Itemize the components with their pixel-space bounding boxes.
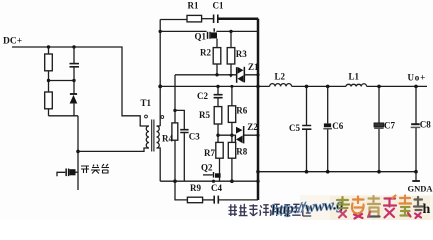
capacitor C1 [214, 15, 218, 24]
label C5 [289, 123, 300, 133]
node junction dot right vertical at Z2 line [256, 134, 259, 137]
svg-text:h: h [423, 202, 431, 217]
wire secondary top lead [157, 125, 161, 127]
node junction dot R6 at output rail [230, 85, 233, 88]
capacitor C8 [411, 86, 421, 171]
wire R3 top lead [230, 31, 232, 47]
diode Z1 (dual clamp) [236, 67, 245, 83]
resistor R5 [214, 107, 222, 124]
label watermark trailing h [423, 202, 431, 217]
label C6 [332, 121, 343, 131]
svg-text:C6: C6 [332, 121, 343, 131]
label Z2 [247, 122, 258, 132]
transformer phase dot secondary [161, 116, 164, 119]
node junction dot R5 at Z2 line [216, 134, 219, 137]
wire ground rail y=171.7 [258, 171, 416, 173]
node junction dot Q2 at bottom rail [212, 180, 215, 183]
node junction dot R4/C3 tee [173, 109, 176, 112]
node junction dot R3 top at Q1 rail [229, 30, 232, 33]
svg-text:L2: L2 [275, 72, 286, 82]
label watermark pale halo [300, 195, 433, 220]
wire output rail top y=86.4 [160, 85, 427, 87]
wire left divider branch [48, 47, 50, 116]
label C8 [420, 120, 431, 130]
label watermark http://www. [271, 197, 345, 219]
label L2 [275, 72, 286, 82]
wire R2 bottom to gate line [216, 64, 218, 75]
node junction dot R2 at gate line [215, 73, 218, 76]
wire R8 bottom to bottom rail [231, 158, 233, 181]
resistor R6 [228, 106, 235, 123]
wire top snubber rail y=19 [160, 19, 187, 21]
label C1 [213, 1, 224, 11]
svg-text:Z1: Z1 [248, 62, 259, 72]
capacitor C5 [302, 86, 311, 171]
label R2 [200, 48, 211, 58]
svg-text:Z2: Z2 [247, 122, 258, 132]
wire R4 riser from gate line down to R4 [174, 75, 176, 123]
wire Z2 line y=135.2 [218, 134, 258, 136]
wire R6 top lead [231, 86, 233, 105]
svg-text:L1: L1 [349, 72, 360, 82]
node junction dot R6 at Z2 line [230, 134, 233, 137]
wire secondary bottom lead to bottom rail [157, 148, 161, 181]
wire R5 bottom through Z2 line to R7 [217, 124, 219, 142]
resistor R-b (lower left, unlabeled) [45, 92, 53, 109]
label R1 [188, 1, 199, 11]
node junction dot R8 at bottom rail [230, 179, 234, 183]
capacitor C3 [180, 130, 188, 133]
node junction dot on DC+ rail at snubber branch [72, 45, 75, 48]
svg-text:R1: R1 [188, 1, 199, 11]
node junction dots on output rail [305, 85, 418, 89]
wire R4 bottom to rail [174, 140, 176, 181]
svg-text:T1: T1 [141, 98, 152, 108]
wire C3 jog [175, 110, 184, 129]
label Q2 [201, 163, 213, 173]
wire secondary-top vertical riser x=160 [159, 20, 161, 127]
wire secondary bottom rail y=181.2 [160, 180, 258, 182]
wire DC+ rail to transformer primary top [12, 47, 149, 126]
node junction dot right vertical at ground rail [256, 170, 260, 174]
svg-text:Q2: Q2 [201, 163, 213, 173]
svg-text:R7: R7 [204, 148, 215, 158]
node DC+ label [3, 37, 22, 47]
svg-text:Q1: Q1 [195, 32, 207, 42]
label watermark colorful logo glyphs [337, 196, 423, 219]
transformer T1 label [141, 98, 152, 108]
wire middle link between left branches [49, 80, 75, 82]
resistor R-a (upper left, unlabeled) [45, 54, 53, 71]
transformer T1 primary winding [146, 126, 149, 148]
svg-text:DC+: DC+ [3, 37, 22, 47]
svg-text:Uo+: Uo+ [408, 73, 427, 83]
diode Z2 (dual clamp) [235, 126, 245, 144]
svg-text:R5: R5 [199, 110, 210, 120]
svg-text:R4: R4 [162, 134, 173, 144]
label L1 [349, 72, 360, 82]
wire R3 bottom to gate line [230, 64, 232, 74]
wire Z1 gate line y=74.8 [175, 74, 258, 76]
svg-text:R2: R2 [200, 48, 211, 58]
node junction dot on DC+ rail at R divider [47, 45, 50, 48]
capacitor C2 [214, 86, 223, 106]
wire drain node to transformer primary bottom [78, 148, 149, 151]
node junction dot C2 at output rail [216, 85, 219, 88]
label R3 [236, 49, 247, 59]
node junction dot riser at output rail [158, 85, 162, 89]
resistor R7 [216, 142, 223, 158]
wire R1 to C1 [202, 18, 213, 20]
svg-text:C4: C4 [211, 183, 222, 193]
wire C4 to right vertical [219, 199, 258, 201]
wire C3 bottom to rail [183, 133, 185, 181]
diode (unlabeled, left clamp) [70, 94, 78, 104]
label C3 [189, 132, 200, 142]
node junction dot riser at Q1 rail [159, 30, 162, 33]
label R6 [236, 106, 247, 116]
label C4 [211, 183, 222, 193]
label GNDA [408, 184, 433, 194]
label R5 [199, 110, 210, 120]
resistor R8 [228, 142, 235, 158]
node junction dot left branch middle [47, 79, 50, 82]
label R8 [236, 147, 247, 157]
capacitor (unlabeled, top-left snubber) [70, 64, 80, 67]
svg-text:C1: C1 [213, 1, 224, 11]
label Z1 [248, 62, 259, 72]
svg-text:C8: C8 [420, 120, 431, 130]
node junction dot right vertical at output rail [256, 85, 260, 89]
node junction dot at switch drain [76, 150, 80, 154]
wire R9 to C4 [203, 199, 214, 201]
label C7 [384, 121, 395, 131]
resistor R9 [187, 197, 202, 203]
transformer phase dot primary [145, 115, 148, 118]
transistor Q2 symbol [203, 172, 221, 178]
label Q1 [195, 32, 207, 42]
node junction dot right vertical at Z1 line [256, 73, 259, 76]
label 开关管 (switch tube) pseudo-glyphs [81, 164, 109, 174]
wire R6 bottom through Z2 line to R8 [231, 122, 233, 142]
resistor R4 [172, 123, 178, 140]
transformer T1 secondary winding [157, 126, 160, 148]
label Uo+ output [408, 73, 427, 83]
wire bottom join of clamp network down to switch drain [49, 116, 79, 190]
capacitor C6 (electrolytic) [323, 86, 332, 171]
node junction dot right branch middle [72, 79, 75, 82]
resistor R3 [227, 48, 235, 64]
node arrowhead R3 to gate line [228, 74, 233, 78]
svg-text:C5: C5 [289, 123, 300, 133]
svg-text:R8: R8 [236, 147, 247, 157]
resistor R2 [213, 48, 221, 64]
inductor L1 [346, 84, 367, 87]
capacitor C4 [214, 196, 218, 204]
capacitor C7 (electrolytic) [374, 86, 384, 171]
transistor switch (开关管) MOSFET symbol [57, 169, 78, 177]
resistor R1 [187, 15, 202, 22]
node junction dot R4 at bottom rail [173, 179, 177, 183]
label R4 [162, 134, 173, 144]
ground GNDA terminal [412, 172, 420, 181]
transformer T1 core [152, 120, 154, 152]
wire R9/C4 snubber branch [175, 181, 187, 200]
svg-text:R9: R9 [190, 183, 201, 193]
svg-text:C2: C2 [197, 91, 208, 101]
wire Q1 to R2 [216, 39, 218, 48]
svg-text:GNDA: GNDA [408, 184, 433, 194]
wire R7 bottom through Q2 to bottom rail [219, 158, 221, 181]
node junction dot right vertical at secondary bottom rail [256, 180, 259, 183]
svg-text:C3: C3 [189, 132, 200, 142]
label watermark 输出整流滤波电路 pseudo-glyphs [229, 204, 312, 216]
label R7 [204, 148, 215, 158]
inductor L2 [270, 84, 292, 87]
label C2 [197, 91, 208, 101]
wire C1 to right bold corner [218, 19, 258, 200]
wire Q1 rail y=31.4 [160, 30, 258, 32]
svg-text:R3: R3 [236, 49, 247, 59]
svg-text:R6: R6 [236, 106, 247, 116]
label R9 [190, 183, 201, 193]
transistor Q1 symbol [207, 28, 217, 39]
node junction dots on ground rail [305, 170, 418, 174]
wire snubber cap/diode branch [73, 47, 75, 116]
svg-text:C7: C7 [384, 121, 395, 131]
